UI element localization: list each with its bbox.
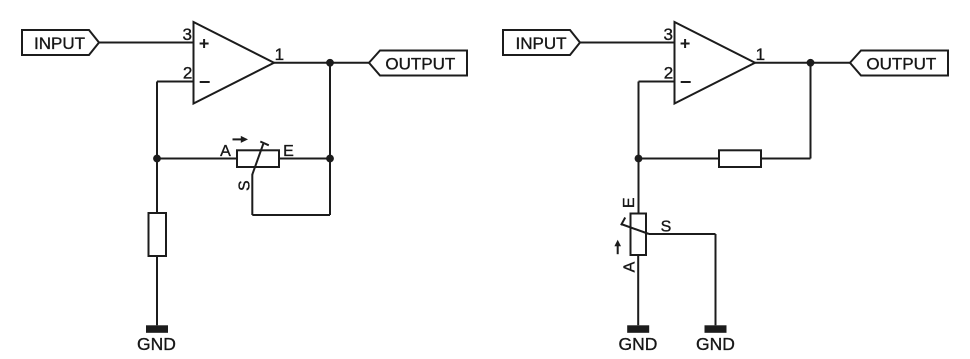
svg-text:S: S [237,180,254,191]
svg-text:3: 3 [183,25,192,44]
svg-text:GND: GND [696,334,735,354]
wire output node down right [810,63,812,159]
wire node to potentiometer A terminal [157,158,237,160]
svg-text:2: 2 [183,64,192,83]
svg-text:S: S [661,219,672,236]
node feedback junction right [635,155,643,163]
svg-text:OUTPUT: OUTPUT [866,55,936,74]
wire pin 2 feedback horizontal right [639,81,675,83]
wire junction to potentiometer E terminal [638,159,640,214]
wire potentiometer A to ground [637,255,639,325]
node A junction [153,155,161,163]
ground bar left [146,325,168,333]
potentiometer P1 wiper [252,142,269,175]
wire resistor to ground [156,256,158,325]
resistor R2 [719,150,761,167]
wire S loop bottom [252,214,330,216]
svg-text:A: A [220,143,231,160]
op-amp U2 [675,22,756,104]
wire wiper S horizontal right [649,233,716,235]
svg-text:3: 3 [664,25,673,44]
node E junction [326,155,334,163]
wire pin 1 output right [755,62,850,64]
op-amp U1 [194,22,275,104]
flag INPUT right [503,30,580,55]
arrow adjustment direction [233,136,249,143]
op-amp - input mark right [681,81,691,83]
svg-text:2: 2 [664,64,673,83]
arrow adjustment direction right [614,240,621,255]
wire pin 2 feedback vertical right [638,82,640,159]
svg-text:OUTPUT: OUTPUT [385,55,455,74]
svg-text:A: A [621,261,638,272]
flag OUTPUT [369,51,467,76]
ground bar right [705,325,727,333]
potentiometer P1 body [237,150,279,167]
svg-text:E: E [283,143,294,160]
svg-text:GND: GND [619,334,658,354]
wire output node down [329,63,331,215]
svg-text:INPUT: INPUT [34,34,85,53]
op-amp + input mark right [681,39,690,48]
wire pin 1 output [274,62,369,64]
potentiometer P2 wiper [621,218,649,235]
wire pin 2 feedback horizontal [157,81,194,83]
wire wiper S down [251,175,253,216]
potentiometer P2 body [631,214,647,256]
op-amp - input mark [200,81,210,83]
wire E terminal to node [279,158,330,160]
svg-text:1: 1 [275,45,284,64]
wire S down to ground right [715,234,717,325]
svg-text:INPUT: INPUT [516,34,567,53]
svg-text:E: E [621,197,638,208]
flag OUTPUT right [850,51,948,76]
wire node A to resistor [156,159,158,214]
svg-text:GND: GND [137,334,176,354]
ground bar middle [627,325,649,333]
wire INPUT to pin 3 right [580,42,675,44]
flag INPUT [22,30,99,55]
wire junction to resistor R2 [639,158,720,160]
svg-text:1: 1 [756,45,765,64]
resistor R1 [149,213,167,256]
node output junction right [807,59,815,67]
wire resistor R2 to output node [761,158,811,160]
op-amp + input mark [200,39,209,48]
wire INPUT to pin 3 [99,42,194,44]
wire pin 2 feedback vertical [156,82,158,159]
node output junction [326,59,334,67]
